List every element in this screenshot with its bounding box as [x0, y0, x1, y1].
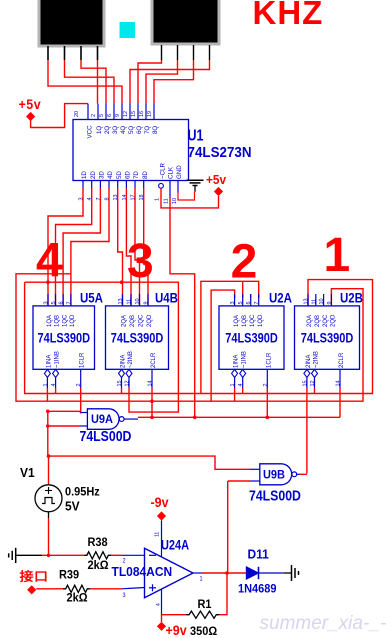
svg-text:7Q: 7Q: [144, 126, 151, 134]
svg-text:20: 20: [74, 111, 80, 117]
svg-text:1QB: 1QB: [242, 315, 248, 327]
svg-text:summer_xia-_-: summer_xia-_-: [260, 613, 387, 634]
svg-text:3D: 3D: [99, 171, 106, 179]
svg-text:9: 9: [327, 301, 333, 304]
svg-text:2: 2: [263, 383, 269, 386]
svg-text:1QA: 1QA: [47, 315, 53, 327]
svg-text:15: 15: [117, 380, 123, 386]
svg-text:11: 11: [311, 299, 317, 305]
svg-text:5V: 5V: [65, 499, 80, 514]
svg-text:13: 13: [118, 298, 124, 304]
svg-text:74LS00D: 74LS00D: [80, 428, 132, 444]
svg-text:1QA: 1QA: [234, 315, 240, 327]
svg-text:R38: R38: [88, 537, 108, 549]
svg-text:5: 5: [51, 301, 57, 304]
svg-text:1CLR: 1CLR: [80, 352, 86, 368]
svg-text:9: 9: [115, 114, 121, 117]
svg-text:1INA: 1INA: [234, 355, 240, 368]
svg-text:6: 6: [59, 301, 65, 304]
svg-text:1: 1: [200, 575, 204, 583]
svg-text:11: 11: [127, 299, 133, 305]
svg-text:1QD: 1QD: [258, 314, 264, 327]
svg-text:9: 9: [144, 301, 150, 304]
svg-text:4D: 4D: [107, 171, 114, 179]
svg-text:2QD: 2QD: [331, 314, 337, 327]
svg-text:U2B: U2B: [340, 289, 363, 305]
svg-text:12: 12: [125, 380, 131, 386]
svg-text:3: 3: [230, 301, 236, 304]
svg-text:U4B: U4B: [155, 289, 178, 305]
svg-text:74LS390D: 74LS390D: [37, 330, 90, 345]
svg-text:13: 13: [304, 298, 310, 304]
svg-text:12: 12: [123, 111, 129, 117]
svg-text:1QD: 1QD: [70, 314, 76, 327]
svg-text:74LS390D: 74LS390D: [111, 330, 164, 345]
svg-text:5Q: 5Q: [128, 126, 135, 134]
svg-text:2CLR: 2CLR: [339, 352, 345, 368]
svg-text:4: 4: [51, 383, 57, 386]
svg-text:2INA: 2INA: [306, 355, 312, 368]
svg-text:2D: 2D: [90, 171, 97, 179]
svg-text:U9A: U9A: [91, 414, 113, 426]
svg-text:1Q: 1Q: [96, 126, 103, 134]
svg-text:4: 4: [156, 603, 162, 606]
svg-text:1CLR: 1CLR: [266, 352, 272, 368]
svg-text:1D: 1D: [81, 171, 88, 179]
svg-text:1: 1: [324, 229, 351, 282]
svg-text:2Q: 2Q: [104, 126, 111, 134]
svg-text:350Ω: 350Ω: [190, 626, 217, 638]
svg-text:10: 10: [135, 298, 141, 304]
svg-text:2QA: 2QA: [122, 315, 128, 327]
svg-text:3: 3: [127, 235, 154, 288]
svg-text:U5A: U5A: [80, 289, 103, 305]
svg-text:8Q: 8Q: [152, 126, 159, 134]
svg-text:2CLR: 2CLR: [151, 352, 157, 368]
svg-text:10: 10: [319, 298, 325, 304]
svg-text:10: 10: [172, 198, 178, 204]
svg-text:U1: U1: [188, 126, 204, 143]
svg-text:15: 15: [131, 111, 137, 117]
svg-text:2kΩ: 2kΩ: [67, 592, 88, 604]
svg-text:5: 5: [99, 114, 105, 117]
svg-text:6D: 6D: [125, 171, 132, 179]
svg-text:74LS273N: 74LS273N: [188, 143, 252, 160]
svg-text:5D: 5D: [116, 171, 123, 179]
svg-text:3Q: 3Q: [112, 126, 119, 134]
svg-text:1: 1: [230, 383, 236, 386]
svg-text:1: 1: [43, 383, 49, 386]
svg-text:2QB: 2QB: [130, 315, 136, 327]
svg-text:~CLR: ~CLR: [160, 162, 167, 179]
svg-text:14: 14: [336, 380, 342, 386]
svg-text:11: 11: [155, 532, 161, 537]
svg-text:2QB: 2QB: [315, 315, 321, 327]
svg-text:KHZ: KHZ: [253, 0, 324, 31]
svg-text:4Q: 4Q: [120, 126, 127, 134]
svg-text:D11: D11: [248, 547, 269, 562]
svg-text:U24A: U24A: [161, 537, 189, 552]
svg-text:1QB: 1QB: [55, 315, 61, 327]
svg-text:6: 6: [246, 301, 252, 304]
svg-text:2INA: 2INA: [121, 355, 127, 368]
svg-text:7: 7: [66, 301, 72, 304]
svg-text:7: 7: [254, 301, 260, 304]
svg-text:1QC: 1QC: [62, 314, 68, 327]
svg-text:2: 2: [76, 383, 82, 386]
svg-text:+5v: +5v: [206, 172, 226, 187]
svg-text:0.95Hz: 0.95Hz: [65, 486, 100, 499]
svg-text:3: 3: [123, 592, 127, 600]
svg-text:VCC: VCC: [87, 125, 94, 139]
svg-text:1INA: 1INA: [46, 355, 52, 368]
svg-text:-9v: -9v: [151, 494, 170, 510]
svg-text:~1INB: ~1INB: [55, 351, 61, 368]
svg-text:U9B: U9B: [263, 469, 285, 481]
svg-text:19: 19: [147, 111, 153, 117]
svg-text:2QA: 2QA: [307, 315, 313, 327]
svg-text:5: 5: [238, 301, 244, 304]
svg-text:2QD: 2QD: [147, 314, 153, 327]
svg-text:15: 15: [302, 380, 308, 386]
svg-text:1: 1: [155, 198, 161, 201]
svg-text:74LS390D: 74LS390D: [225, 330, 278, 345]
svg-text:R1: R1: [198, 599, 212, 611]
svg-text:1QC: 1QC: [250, 314, 256, 327]
svg-text:+9v: +9v: [166, 622, 188, 638]
svg-text:14: 14: [148, 380, 154, 386]
svg-text:R39: R39: [59, 569, 79, 581]
svg-text:4: 4: [238, 383, 244, 386]
svg-text:6: 6: [107, 114, 113, 117]
svg-text:U2A: U2A: [269, 289, 292, 305]
svg-text:74LS390D: 74LS390D: [301, 330, 354, 345]
svg-text:4: 4: [36, 235, 63, 288]
svg-text:2kΩ: 2kΩ: [88, 560, 109, 572]
svg-text:11: 11: [164, 198, 170, 204]
svg-text:2QC: 2QC: [323, 314, 329, 327]
svg-text:CLK: CLK: [168, 166, 175, 179]
svg-text:+5v: +5v: [19, 96, 42, 112]
svg-text:8D: 8D: [142, 171, 149, 179]
svg-text:~2INB: ~2INB: [128, 351, 134, 368]
svg-text:16: 16: [139, 111, 145, 117]
svg-text:74LS00D: 74LS00D: [249, 487, 301, 503]
svg-text:7D: 7D: [133, 171, 140, 179]
svg-text:2: 2: [91, 114, 97, 117]
svg-text:GND: GND: [176, 165, 183, 179]
svg-text:接口: 接口: [20, 570, 49, 584]
svg-text:12: 12: [310, 380, 316, 386]
svg-text:2: 2: [231, 236, 258, 289]
svg-text:V1: V1: [20, 465, 35, 480]
svg-text:2QC: 2QC: [139, 314, 145, 327]
svg-text:1N4689: 1N4689: [238, 583, 276, 596]
svg-text:3: 3: [44, 301, 50, 304]
svg-text:TL084ACN: TL084ACN: [112, 564, 173, 579]
svg-text:~1INB: ~1INB: [242, 351, 248, 368]
svg-text:~2INB: ~2INB: [314, 351, 320, 368]
svg-text:6Q: 6Q: [136, 126, 143, 134]
